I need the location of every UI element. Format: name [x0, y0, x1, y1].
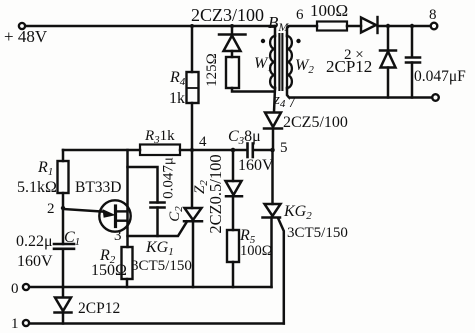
terminal output minus [432, 94, 439, 101]
svg-text:1: 1 [11, 316, 19, 332]
svg-text:5: 5 [280, 140, 288, 156]
svg-text:+ 48V: + 48V [4, 27, 48, 46]
wire filter cap top [411, 26, 414, 57]
svg-text:100Ω: 100Ω [240, 243, 273, 259]
node 2 [61, 206, 65, 210]
terminal 1 [23, 320, 29, 326]
node 5 [270, 148, 275, 153]
svg-text:5.1kΩ: 5.1kΩ [17, 179, 57, 196]
svg-text:2CZ0.5/100: 2CZ0.5/100 [206, 154, 225, 233]
diode 2CZ5/100 [264, 113, 282, 129]
capacitor 0.047uF [406, 58, 420, 63]
wire emitter [63, 209, 102, 212]
node junction filter cap [410, 24, 414, 28]
svg-text:6: 6 [296, 7, 304, 23]
svg-text:2CP12: 2CP12 [78, 300, 120, 317]
diode Z2 2CZ0.5/100 [226, 181, 243, 196]
capacitor C1 [54, 244, 74, 249]
wire R4 to node 4 [191, 103, 194, 150]
wire top rail [25, 25, 275, 28]
wire C3 to node 5 [253, 149, 273, 152]
terminal 8 [431, 23, 438, 30]
wire 2CP12 left top [62, 287, 65, 297]
terminal +48V [19, 23, 25, 29]
terminal 0 [23, 284, 29, 290]
wire KG1 cathode [192, 221, 195, 287]
node 125ohm branch junction [230, 24, 234, 28]
svg-text:0.047μF: 0.047μF [414, 68, 466, 85]
wire diode to node 5 [272, 129, 275, 150]
svg-text:160V: 160V [17, 253, 53, 270]
svg-text:BT33D: BT33D [75, 179, 122, 196]
resistor R3 [140, 145, 180, 156]
svg-text:3CT5/150: 3CT5/150 [287, 225, 348, 241]
node zener junction [231, 148, 236, 153]
svg-text:0: 0 [11, 281, 19, 297]
wire C2 top link [128, 167, 158, 203]
svg-text:125Ω: 125Ω [204, 53, 220, 87]
resistor R1 [58, 161, 69, 193]
node 4 [190, 148, 194, 152]
svg-text:C38μ: C38μ [228, 128, 261, 147]
svg-text:100Ω: 100Ω [310, 1, 348, 20]
wire KG2 cathode [270, 218, 273, 288]
wire rail 1 [29, 322, 284, 325]
wire R5 bottom [232, 262, 235, 287]
thyristor KG2 [263, 204, 281, 218]
wire 100ohm to diode [347, 25, 361, 28]
transformer W1 winding [274, 35, 276, 89]
wire B2 lead [126, 150, 129, 247]
transformer W2 winding [286, 35, 288, 89]
wire node3 to gate KG1 [128, 222, 188, 237]
svg-text:2CP12: 2CP12 [326, 57, 372, 76]
transformer BM W1 lead [274, 26, 277, 36]
wire 125ohm branch top [231, 26, 234, 34]
svg-text:2CZ5/100: 2CZ5/100 [283, 114, 348, 131]
polarity dot W1 [261, 39, 265, 43]
wire R1 to node2 [62, 193, 65, 208]
node junction 2CP12 [386, 24, 390, 28]
svg-text:150Ω: 150Ω [91, 262, 127, 279]
wire KG1 anode [191, 150, 194, 208]
wire KG2 gate [278, 218, 284, 324]
resistor R4 [187, 72, 199, 103]
polarity dot W2 [296, 39, 300, 43]
transformer core [279, 34, 282, 90]
wire KG2 anode [271, 150, 274, 204]
transistor BT33D [99, 200, 130, 231]
wire 2CP12 branch top [387, 26, 390, 50]
wire zener top [232, 150, 235, 181]
wire rail 0 [29, 286, 271, 289]
wire W2 top lead [287, 26, 317, 36]
svg-text:3CT5/150: 3CT5/150 [131, 258, 192, 274]
wire R1 top [62, 150, 65, 161]
wire 125 bottom to z4 [232, 88, 273, 92]
wire R3 to node5 [180, 149, 247, 152]
wire R2 bottom [126, 279, 129, 287]
svg-text:8: 8 [429, 7, 437, 23]
wire diode to terminal 8 [378, 25, 431, 28]
node R4 top junction [190, 24, 194, 28]
svg-text:2CZ3/100: 2CZ3/100 [191, 5, 264, 25]
svg-text:3: 3 [114, 228, 122, 244]
wire C1 bottom [62, 249, 65, 287]
svg-text:4: 4 [199, 134, 207, 150]
svg-text:R31k: R31k [144, 128, 175, 146]
diode 2CZ3/100 [219, 35, 246, 52]
svg-text:2: 2 [47, 201, 55, 217]
capacitor C2 [151, 203, 165, 208]
svg-text:1k: 1k [169, 90, 185, 107]
wire 2CP12 left bottom [62, 313, 65, 324]
wire zener to R5 [232, 196, 235, 230]
wire diode to resistor 125 [231, 51, 234, 57]
wire W1 bottom to diode [274, 88, 275, 112]
resistor 125ohm [226, 57, 239, 88]
thyristor KG1 [184, 208, 202, 221]
capacitor C3 [248, 144, 253, 158]
wire mid rail [63, 149, 140, 152]
wire W2 bottom lead [287, 88, 432, 98]
svg-text:160V: 160V [238, 157, 274, 174]
wire R4 branch top [191, 26, 194, 72]
diode output [361, 17, 378, 33]
diode 2CP12 left [55, 298, 72, 313]
wire 2CP12 bottom [387, 68, 390, 98]
svg-text:0.047μ: 0.047μ [161, 157, 177, 199]
wire C2 bottom [156, 208, 159, 237]
resistor R5 [227, 230, 239, 262]
svg-text:0.22μ: 0.22μ [16, 233, 53, 250]
resistor 100ohm output [317, 22, 347, 31]
wire filter cap bottom [411, 63, 414, 98]
resistor R2 [122, 247, 133, 279]
diode 2CP12 right [380, 51, 396, 68]
wire node2 to C1 [62, 208, 65, 244]
